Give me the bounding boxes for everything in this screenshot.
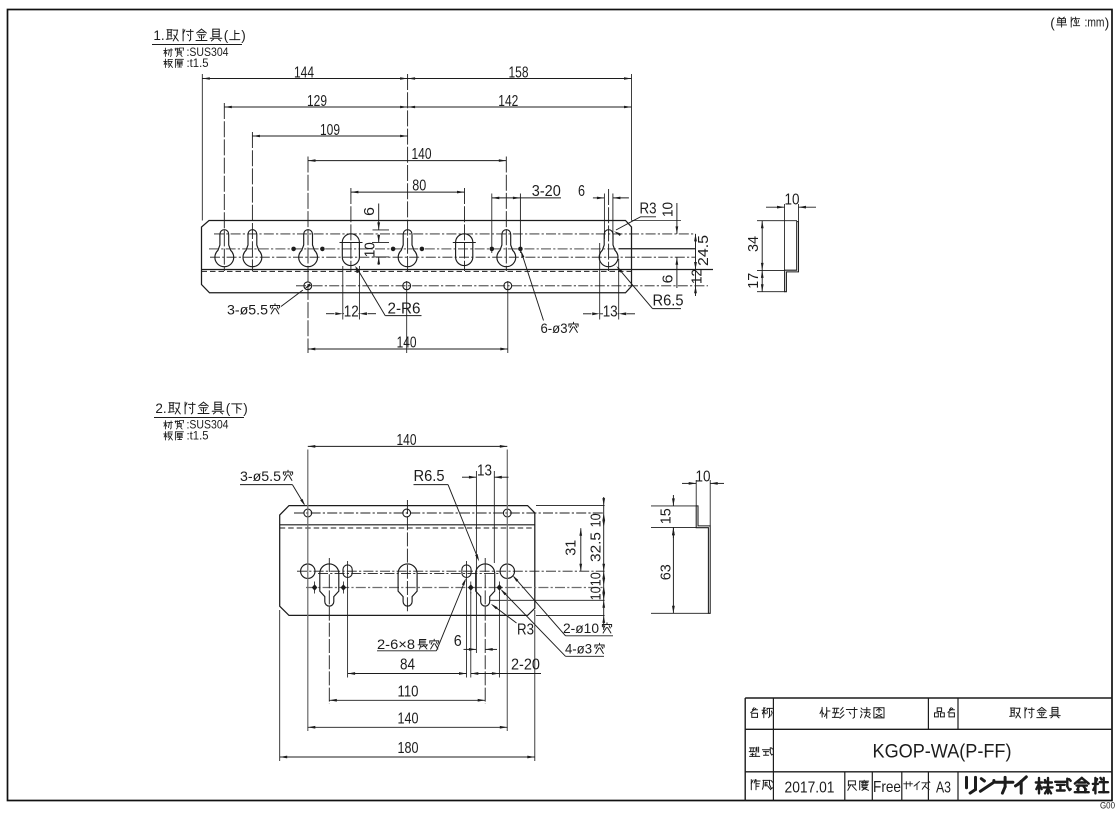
thickness note 板厚:t1.5 lower	[164, 432, 173, 441]
2-ø10 holes	[301, 564, 315, 578]
center line A through keyhole stem centers	[214, 233, 696, 235]
svg-text:84: 84	[400, 657, 415, 674]
company logo リンナイ株式会社 (Rinnai Co., Ltd.)	[967, 777, 976, 793]
vertical center/extension lines lower drawing	[307, 450, 309, 732]
svg-text:31: 31	[564, 540, 580, 556]
vertical center/extension lines upper drawing	[201, 74, 203, 221]
svg-text:180: 180	[398, 740, 419, 757]
dimension 3-20	[492, 197, 561, 199]
svg-text:140: 140	[412, 146, 432, 163]
svg-text:(: (	[226, 401, 231, 416]
dimensions 34 and 17 side view	[761, 221, 763, 292]
hidden line lower bracket	[280, 527, 535, 529]
lower bracket plate outline (front view)	[280, 506, 535, 616]
dimension 84	[348, 673, 467, 675]
svg-text:3-20: 3-20	[532, 183, 561, 200]
dimension 109	[252, 135, 407, 137]
obround arc-center ticks	[340, 242, 363, 244]
center line C through keyhole big-hole centers	[210, 256, 696, 258]
svg-text::t1.5: :t1.5	[187, 431, 209, 443]
svg-text:12: 12	[344, 304, 359, 321]
bend line lower bracket	[280, 524, 535, 526]
svg-text:142: 142	[498, 93, 518, 110]
center line through 3-ø5.5 row lower	[294, 512, 605, 514]
title block value 取付金具 (mounting bracket)	[1010, 708, 1021, 718]
dimension 6 lower	[464, 648, 477, 650]
svg-text:R6.5: R6.5	[414, 468, 445, 485]
dimension 144	[202, 78, 407, 80]
dimension 63 side view	[672, 528, 674, 614]
dimension 140 bottom lower drawing	[308, 726, 508, 728]
4-ø3 holes (diamonds)	[312, 584, 318, 591]
dimension 10 right stack	[676, 203, 678, 234]
svg-text:17: 17	[746, 273, 762, 289]
6-ø3 holes (filled dots)	[291, 247, 296, 252]
svg-text:63: 63	[659, 564, 675, 580]
dimension 129	[224, 106, 407, 108]
svg-text:140: 140	[397, 432, 417, 449]
svg-text:10: 10	[660, 202, 676, 217]
svg-text:10: 10	[588, 586, 604, 600]
dimension 2-20	[471, 673, 541, 675]
svg-text:10: 10	[588, 513, 604, 527]
dimension 15 side view	[672, 495, 674, 506]
main hole row center line lower	[297, 570, 605, 572]
dimension 13 right keyhole	[600, 313, 619, 315]
svg-text:): )	[1105, 16, 1110, 31]
svg-text:): )	[241, 28, 246, 43]
main horizontal center line B	[209, 248, 616, 250]
svg-text:158: 158	[509, 64, 529, 81]
center line B solid right extension	[619, 248, 696, 250]
title block label サイズ (size)	[904, 782, 913, 789]
side view extension lines lower	[651, 505, 696, 507]
title block label 品名	[935, 708, 945, 717]
dimension 180	[280, 756, 535, 758]
keyhole arc-center line lower	[318, 572, 500, 574]
svg-text:2-20: 2-20	[511, 657, 540, 674]
svg-text:140: 140	[397, 334, 417, 351]
svg-text:R6.5: R6.5	[653, 293, 684, 310]
top edge right extension line	[632, 220, 682, 222]
svg-text:): )	[243, 401, 248, 416]
lower bracket side view L-profile	[696, 506, 710, 613]
thickness note 板厚:t1.5 upper	[164, 59, 173, 68]
svg-text:KGOP-WA(P-FF): KGOP-WA(P-FF)	[873, 742, 1012, 763]
svg-text:2-6×8: 2-6×8	[377, 637, 415, 652]
svg-text::t1.5: :t1.5	[187, 58, 209, 70]
svg-text:80: 80	[412, 178, 426, 195]
svg-text:13: 13	[603, 304, 618, 321]
dimension 140 bottom upper drawing	[308, 348, 508, 350]
svg-text:(: (	[1050, 16, 1055, 31]
dimensions 10/32.5/10/10 right stack lower	[603, 497, 605, 630]
svg-text:34: 34	[746, 236, 762, 252]
svg-text:10: 10	[785, 191, 800, 208]
svg-text:(: (	[224, 28, 229, 43]
svg-text:6: 6	[660, 274, 676, 283]
svg-text:10: 10	[696, 469, 711, 486]
svg-text:R3: R3	[640, 201, 657, 218]
svg-text:10: 10	[363, 242, 379, 257]
svg-text:13: 13	[477, 462, 492, 479]
dimension 140 top lower drawing	[308, 445, 508, 447]
title block value 外形寸法図 (outline dimension drawing)	[820, 707, 830, 718]
4-ø3 hole row center line	[306, 587, 605, 589]
hidden line below bend	[202, 270, 632, 272]
title block label 型式	[749, 747, 760, 756]
center line through 3-ø5.5 hole row	[296, 285, 708, 287]
keyhole slots R6.5/R3 lower bracket	[320, 564, 339, 606]
svg-text:24.5: 24.5	[696, 235, 712, 266]
title block frame and grid	[745, 697, 1112, 699]
3-ø5.5 holes bottom row	[304, 282, 312, 290]
3-ø5.5 holes lower bracket	[304, 509, 312, 517]
svg-text:4-ø3: 4-ø3	[565, 642, 592, 657]
upper bracket plate outline (front view)	[202, 221, 632, 293]
plate top edge extension lower	[536, 505, 605, 507]
svg-text:1.: 1.	[153, 28, 164, 43]
svg-text:15: 15	[659, 508, 675, 524]
svg-text:3-ø5.5: 3-ø5.5	[227, 303, 268, 318]
dimension 31 right stack lower	[580, 528, 582, 571]
dimension 12 obround width	[343, 313, 360, 315]
title block label 名称	[751, 708, 758, 718]
dimension 6 vertical edge-to-stem	[378, 204, 380, 230]
dimension 80	[351, 191, 465, 193]
svg-text:2017.01: 2017.01	[785, 780, 835, 797]
svg-text:140: 140	[398, 710, 419, 727]
svg-text:2-R6: 2-R6	[388, 301, 421, 318]
dimension 24.5 and 12 right stack	[695, 234, 697, 294]
svg-text:3-ø5.5: 3-ø5.5	[240, 469, 281, 484]
upper bracket side view Z-profile	[785, 222, 799, 292]
svg-text:2.: 2.	[155, 401, 166, 416]
svg-text::mm: :mm	[1085, 16, 1105, 30]
svg-text:12: 12	[689, 269, 705, 284]
svg-text:G00: G00	[1100, 801, 1115, 812]
title block label 作成	[751, 780, 760, 790]
dimension 6 stem width	[593, 197, 605, 199]
dimension 10 side view lower	[682, 482, 696, 484]
keyhole slots K1-K6 and obrounds 2-R6 (upper bracket)	[215, 230, 234, 267]
svg-text:A3: A3	[936, 780, 951, 797]
material note 材質:SUS304 lower	[164, 421, 173, 430]
title block label 尺度 (scale)	[848, 781, 857, 790]
svg-text:144: 144	[294, 64, 314, 81]
material note 材質:SUS304 upper	[164, 48, 173, 57]
dimension 140 upper	[308, 160, 506, 162]
dimension 110	[329, 699, 485, 701]
dimension 158	[408, 78, 632, 80]
dimension 6 right stack	[676, 257, 678, 288]
svg-text:32.5: 32.5	[589, 532, 605, 562]
svg-text:2-ø10: 2-ø10	[563, 621, 599, 636]
svg-text:6: 6	[578, 183, 585, 200]
svg-text:Free: Free	[873, 779, 901, 796]
2-6×8 slots	[343, 565, 352, 578]
dimension 10 side view upper	[766, 206, 785, 208]
svg-text:6-ø3: 6-ø3	[541, 321, 568, 336]
svg-text:10: 10	[588, 572, 604, 586]
dimension 13 lower	[462, 476, 476, 478]
svg-text:6: 6	[454, 633, 462, 650]
bend line upper bracket	[202, 269, 714, 271]
svg-text:R3: R3	[517, 622, 534, 639]
svg-text:6: 6	[362, 207, 378, 216]
dimension 142	[408, 106, 632, 108]
plate bottom edge extension lower	[536, 614, 605, 616]
svg-text:109: 109	[320, 122, 340, 139]
svg-text:110: 110	[398, 683, 419, 700]
dimension 10 obround pitch	[372, 241, 389, 243]
stem-center extension line	[490, 599, 605, 601]
svg-text:129: 129	[307, 93, 327, 110]
